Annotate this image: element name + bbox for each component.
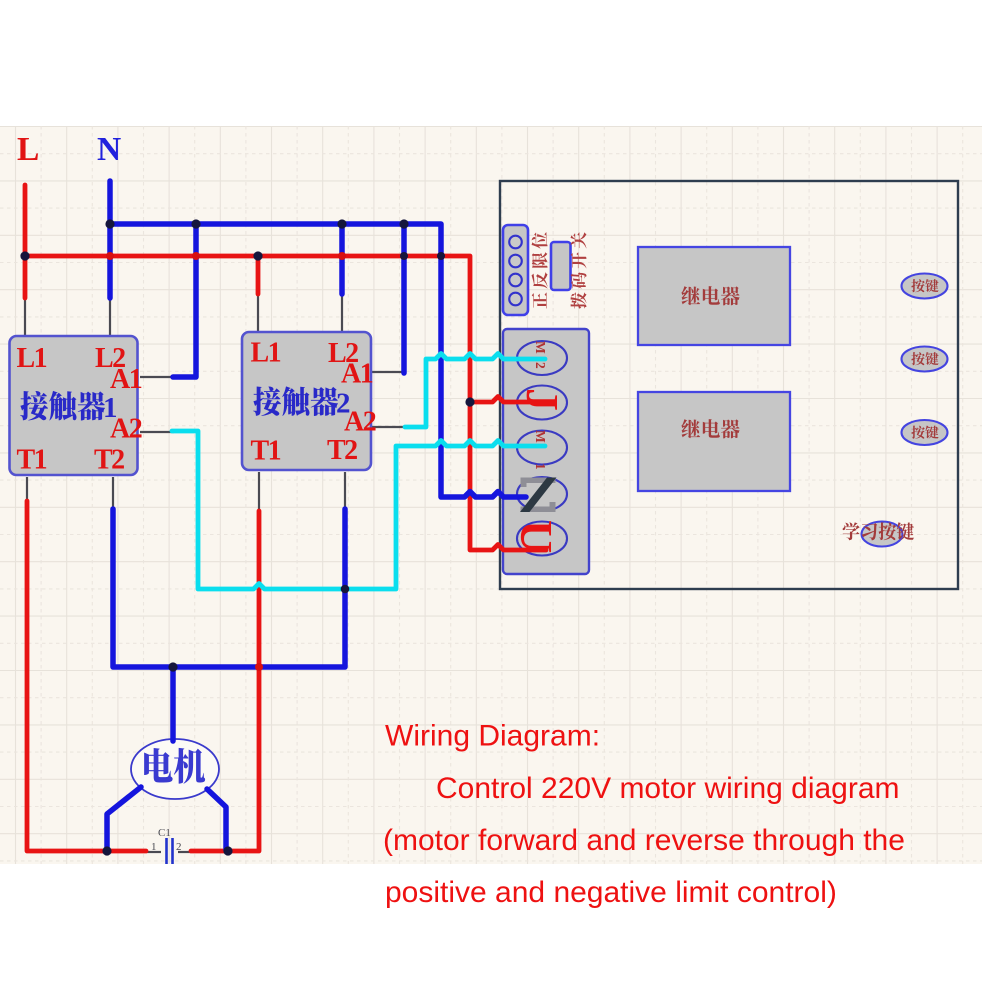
svg-text:U: U [511, 520, 562, 553]
svg-text:A1: A1 [341, 359, 373, 390]
svg-text:L1: L1 [17, 343, 47, 374]
svg-text:T2: T2 [94, 445, 124, 476]
svg-text:T2: T2 [327, 435, 357, 466]
svg-text:1: 1 [533, 463, 548, 470]
svg-text:M: M [533, 430, 548, 443]
svg-text:Control 220V motor wiring diag: Control 220V motor wiring diagram [436, 772, 900, 805]
svg-text:J: J [517, 388, 568, 411]
svg-text:M: M [533, 341, 548, 354]
svg-text:L1: L1 [251, 338, 281, 369]
svg-text:A1: A1 [110, 364, 142, 395]
svg-text:2: 2 [176, 841, 182, 853]
svg-text:N: N [97, 131, 121, 168]
svg-text:L: L [17, 131, 39, 168]
svg-text:1: 1 [103, 392, 118, 424]
svg-text:T1: T1 [17, 445, 47, 476]
svg-text:(motor forward and reverse thr: (motor forward and reverse through the [383, 824, 905, 857]
svg-text:Wiring Diagram:: Wiring Diagram: [385, 720, 600, 753]
svg-text:positive and negative limit co: positive and negative limit control) [385, 876, 837, 909]
svg-text:T1: T1 [251, 436, 281, 467]
svg-text:1: 1 [151, 841, 157, 853]
svg-text:2: 2 [336, 388, 351, 420]
svg-text:C1: C1 [158, 827, 171, 839]
svg-text:2: 2 [533, 362, 548, 369]
